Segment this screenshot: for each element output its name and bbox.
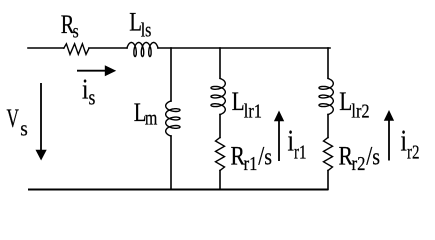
svg-text:s: s — [20, 117, 28, 140]
svg-text:V: V — [7, 103, 19, 133]
